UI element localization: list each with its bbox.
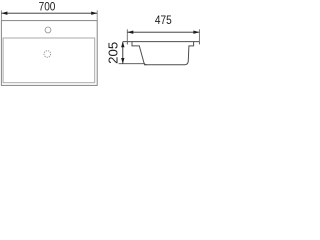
- side view: bowl bottom: [144, 64, 185, 66]
- dimension 475: right arrowhead: [193, 31, 199, 34]
- top view: outer rim rectangle: [1, 21, 97, 86]
- dimension 700: extension line left: [0, 10, 2, 20]
- dimension 700: extension line right: [96, 10, 98, 20]
- side view: left lip and left bowl wall: [132, 42, 147, 65]
- top view: inner basin rectangle: [3, 38, 95, 83]
- dimension 205: top arrowhead: [121, 42, 124, 48]
- svg-text:205: 205: [106, 42, 121, 64]
- dimension 205: bottom arrowhead: [121, 58, 124, 64]
- dimension 700: left arrowhead: [1, 12, 7, 15]
- side view: deck top line: [123, 41, 200, 43]
- svg-text:475: 475: [155, 14, 172, 27]
- side view: right rim end face: [198, 42, 200, 45]
- faucet hole: [45, 27, 51, 33]
- dimension 475: left arrowhead: [127, 31, 133, 34]
- dimension 475: extension line right: [198, 29, 200, 41]
- side view: left rim end face: [126, 42, 128, 45]
- dimension 475: dimension line: [127, 31, 199, 33]
- svg-text:700: 700: [39, 0, 56, 13]
- side view: bowl bottom / extension line: [119, 63, 145, 65]
- side view: right lip and right bowl wall: [185, 42, 194, 65]
- dimension 475: extension line left: [126, 29, 128, 41]
- dimension 700: right arrowhead: [91, 12, 97, 15]
- drain hole (hidden/dashed): [44, 51, 51, 58]
- dimension 205: dimension line: [122, 42, 124, 64]
- dimension 700: dimension line: [1, 12, 97, 14]
